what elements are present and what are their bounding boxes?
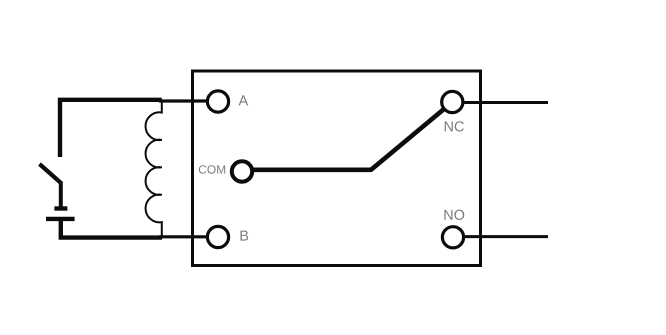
coil L1 bbox=[146, 100, 162, 238]
switch arm COM to NC bbox=[253, 109, 444, 170]
terminal COM bbox=[232, 161, 252, 181]
label NO bbox=[444, 210, 464, 220]
wire: coil to pin A (thin) bbox=[159, 99, 208, 102]
terminal NO bbox=[442, 227, 463, 248]
terminal A bbox=[207, 91, 228, 112]
terminal B bbox=[207, 226, 228, 247]
wire: NC to right bbox=[462, 101, 549, 104]
wire: battery loop top (thick) bbox=[60, 100, 162, 157]
battery BT1 negative plate bbox=[46, 217, 75, 221]
wire: switch to battery bbox=[59, 182, 63, 209]
battery BT1 positive plate bbox=[54, 206, 67, 210]
switch S1 blade bbox=[40, 164, 62, 184]
terminal NC bbox=[442, 91, 463, 112]
label COM bbox=[199, 165, 225, 174]
relay box U1 bbox=[193, 71, 481, 266]
label A bbox=[239, 95, 249, 105]
wire: NO to right bbox=[462, 235, 548, 238]
wire: battery loop bottom (thick) bbox=[61, 219, 162, 238]
label NC bbox=[445, 121, 464, 131]
wire: coil to pin B (thin) bbox=[159, 235, 208, 238]
label B bbox=[240, 231, 248, 241]
